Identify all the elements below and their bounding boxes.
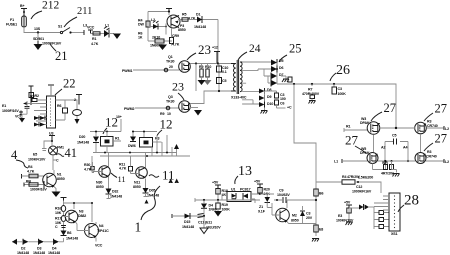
node C — [53, 155, 59, 165]
wire PWM2 to Q3 gate — [135, 107, 179, 109]
svg-text:C3: C3 — [306, 212, 310, 216]
resistor CR9 4.7K — [170, 28, 180, 47]
resistor R15 (28 area) — [347, 208, 351, 214]
resistor R17 10K — [55, 212, 66, 227]
svg-text:C3: C3 — [338, 87, 342, 91]
terminal tick right of 22 — [74, 95, 82, 105]
svg-text:R30: R30 — [84, 163, 90, 167]
junction dots rail — [293, 83, 295, 85]
svg-text:13: 13 — [238, 164, 252, 179]
capacitor C1 1000KF/16V — [33, 33, 62, 46]
rectifier D9 — [259, 91, 271, 105]
svg-text:R5: R5 — [182, 13, 186, 17]
svg-text:D6: D6 — [279, 66, 283, 70]
svg-text:8050: 8050 — [57, 177, 65, 181]
zener pair (28 area) — [349, 204, 374, 210]
supply +5V (13 right) — [254, 180, 263, 188]
diode chain D2 — [12, 239, 29, 255]
junction dots bus — [104, 152, 168, 158]
wire Q6 drain out L2 — [427, 126, 450, 131]
svg-text:22: 22 — [63, 77, 76, 91]
connector XS1 (28) — [389, 193, 400, 236]
secondary tap wires — [242, 62, 274, 104]
ground (C11) — [200, 228, 208, 234]
svg-text:1000F/16V: 1000F/16V — [2, 109, 19, 113]
transistor QN30 8050 (11 left) — [93, 153, 110, 190]
callout 26 — [330, 63, 350, 81]
diode D3 — [29, 239, 46, 255]
transistor Q13 D882 — [64, 210, 87, 227]
sense resistors WR 4R7 — [373, 160, 397, 176]
svg-text:U3: U3 — [49, 132, 53, 136]
svg-text:1000F/16V: 1000F/16V — [30, 188, 47, 192]
wire feedback drop — [294, 84, 316, 236]
svg-text:D9: D9 — [267, 95, 271, 99]
svg-text:41: 41 — [65, 146, 78, 160]
callout 12 (right) — [157, 117, 173, 137]
label PWM2 — [124, 107, 134, 111]
diode pair D (pin 7) — [34, 122, 45, 127]
callout 4 — [11, 148, 28, 168]
svg-text:R3: R3 — [30, 95, 34, 99]
svg-text:VCC: VCC — [87, 26, 95, 30]
ground arrow (Q3 source) — [190, 108, 202, 116]
svg-text:4.7K: 4.7K — [119, 167, 127, 171]
svg-text:8050: 8050 — [291, 219, 299, 223]
connector left pins — [374, 196, 389, 210]
chassis ground (28 area) — [346, 222, 353, 225]
svg-text:A2: A2 — [381, 146, 385, 150]
resistor R13 100K — [332, 84, 346, 96]
svg-text:11: 11 — [162, 168, 175, 183]
callout 1 — [135, 186, 161, 235]
diode D30 — [108, 193, 114, 197]
svg-text:100: 100 — [280, 97, 286, 101]
transistor QN11 8050 (11 right) — [133, 153, 147, 190]
label PWM1 — [122, 69, 132, 73]
junction dots drain rail — [195, 62, 197, 64]
resistor R9b 10 — [160, 112, 171, 116]
svg-text:Q3: Q3 — [168, 95, 173, 99]
svg-text:R1: R1 — [346, 125, 350, 129]
rail 10+ label — [116, 115, 122, 132]
svg-text:D5: D5 — [279, 59, 283, 63]
capacitor C5 on +12 drop — [217, 78, 227, 84]
gate bead Q1 — [164, 65, 173, 72]
rectifier D6 — [258, 63, 283, 77]
capacitor C15 1000KF/16V — [352, 185, 372, 194]
svg-text:B+: B+ — [20, 4, 25, 8]
callout 12 (left) — [103, 115, 118, 135]
bus wires (11/12 block) — [93, 132, 190, 157]
ground (Q10) — [52, 192, 61, 198]
IC U1 left pins — [34, 100, 47, 125]
svg-text:FUSE1: FUSE1 — [6, 23, 17, 27]
ground (21 block) — [34, 41, 43, 50]
wire Q5-Q6 drain link — [380, 127, 415, 129]
capacitor E5 100KF/10V — [28, 146, 47, 162]
MOSFET Q3 TK30 — [166, 95, 190, 112]
svg-text:27: 27 — [435, 102, 448, 116]
svg-text:D882: D882 — [78, 214, 86, 218]
node +C (25) — [277, 106, 292, 110]
svg-text:E5: E5 — [33, 153, 37, 157]
svg-text:0.1: 0.1 — [222, 70, 227, 74]
svg-text:23: 23 — [172, 80, 184, 94]
TVS 1.5KE200 — [357, 176, 373, 184]
svg-text:+C: +C — [287, 106, 292, 110]
wire PWM1 to Q1 gate — [133, 69, 179, 71]
diode D1 1N4148 — [194, 13, 218, 30]
diode D15 1N4148 — [172, 213, 204, 229]
callout 27 (Q5) — [371, 101, 396, 121]
svg-text:C5: C5 — [222, 79, 226, 83]
svg-text:DW6: DW6 — [128, 144, 136, 148]
svg-text:R1: R1 — [115, 137, 119, 141]
svg-text:PC817: PC817 — [240, 188, 251, 192]
wire L1 to Q7 gate — [342, 160, 367, 162]
callout 22 — [55, 77, 76, 96]
svg-text:F1: F1 — [10, 18, 14, 22]
resistor R19 100K — [216, 200, 230, 212]
wire S1 to L3 terminal — [72, 32, 85, 34]
svg-text:E1: E1 — [2, 104, 6, 108]
svg-text:1N4148: 1N4148 — [48, 251, 60, 255]
zener Z1 9.1V — [258, 194, 274, 214]
resistor R22 (feedback leg lower) — [314, 225, 323, 232]
svg-text:211: 211 — [77, 6, 92, 17]
wire top bus (D882) — [64, 203, 93, 222]
junction dot bottom rail — [218, 90, 220, 92]
resistor R6 1K — [138, 32, 143, 40]
resistor R7 (bottom, 2K10) — [148, 36, 172, 48]
svg-text:B6: B6 — [319, 192, 323, 196]
svg-text:11: 11 — [118, 174, 126, 184]
diode D20 1N4148 — [77, 132, 99, 147]
resistor R24 4.7K (base Q10) — [22, 165, 45, 179]
IC U1 top pin wire — [50, 85, 52, 96]
chassis ground (26) — [309, 99, 316, 104]
transistor Q2 8550 (PNP) — [167, 15, 186, 32]
rectifier D5 — [271, 59, 283, 66]
svg-text:9.1F: 9.1F — [258, 210, 266, 214]
wire D1 down to drain rail — [217, 20, 219, 64]
svg-text:20V: 20V — [306, 216, 313, 220]
gate bead Q3 — [166, 106, 170, 110]
svg-text:27: 27 — [345, 133, 359, 148]
supply +12 — [212, 46, 220, 64]
ground (snubber) — [198, 80, 212, 85]
terminal square (QN30 base) — [91, 162, 94, 172]
svg-text:CR740: CR740 — [427, 124, 438, 128]
diode D4b — [44, 238, 64, 255]
svg-text:X133-40C: X133-40C — [231, 96, 247, 100]
ground (aux) — [158, 45, 167, 51]
svg-text:C5: C5 — [392, 134, 396, 138]
callout 23 (lower) — [172, 80, 184, 101]
svg-text:100K: 100K — [222, 208, 231, 212]
optocoupler U2 (12 left) — [90, 131, 121, 147]
svg-text:10K: 10K — [55, 211, 62, 215]
capacitor C12 (25) — [265, 91, 286, 101]
svg-text:N3: N3 — [79, 210, 83, 214]
wire Q5 source to Q7 — [373, 135, 375, 153]
svg-text:R10: R10 — [205, 65, 211, 69]
diode D32 1N4148 — [106, 189, 123, 199]
MOSFET Q5 — [360, 117, 380, 134]
svg-text:10+: 10+ — [116, 115, 122, 119]
svg-text:20: 20 — [169, 65, 173, 69]
optocoupler U3 (12 right) — [128, 131, 162, 149]
resonator Y1 — [65, 100, 82, 124]
svg-text:R4: R4 — [342, 175, 346, 179]
transistor Q14 TIP41C — [77, 222, 109, 242]
transformer T1 primary winding — [231, 64, 236, 92]
svg-text:4.7K: 4.7K — [91, 42, 99, 46]
svg-text:L2: L2 — [445, 127, 449, 131]
svg-text:C6: C6 — [280, 102, 284, 106]
callout 212 — [31, 0, 60, 19]
svg-text:212: 212 — [42, 0, 60, 12]
chassis ground (25 lower) — [261, 108, 268, 114]
capacitor E6 1000F/16V — [30, 181, 47, 192]
svg-text:1N4148: 1N4148 — [147, 194, 159, 198]
transistor Q9 8050 — [272, 200, 299, 224]
svg-text:1N4148: 1N4148 — [17, 251, 29, 255]
resistor R3 (pin1) — [30, 95, 37, 102]
node 13S — [34, 27, 41, 34]
chassis ground (feedback leg) — [312, 239, 319, 242]
MOSFET Q8 IRF740 — [415, 150, 437, 164]
svg-text:PWM1: PWM1 — [122, 69, 132, 73]
svg-text:4R7/2W: 4R7/2W — [381, 172, 394, 176]
callout 27 (Q7) — [345, 133, 366, 154]
chassis ground (bridge) — [393, 174, 400, 177]
callout 25 — [279, 42, 302, 63]
svg-text:VCC: VCC — [95, 244, 103, 248]
svg-text:27: 27 — [435, 132, 448, 146]
svg-text:24: 24 — [249, 43, 261, 55]
capacitor C14 bridge mid — [381, 134, 409, 163]
svg-text:28: 28 — [404, 193, 419, 209]
svg-text:1: 1 — [135, 220, 142, 235]
svg-text:R3: R3 — [427, 150, 431, 154]
callout 23 (upper) — [187, 42, 211, 60]
svg-text:R2: R2 — [35, 94, 39, 98]
resistor R11a (25) — [288, 77, 292, 82]
svg-text:R16: R16 — [55, 207, 61, 211]
callout 27 (Q6) — [424, 102, 447, 122]
svg-text:13S: 13S — [34, 27, 41, 31]
capacitor bank C16 C17 C18 — [374, 207, 389, 229]
svg-text:1N4148: 1N4148 — [66, 237, 78, 241]
junction dot bridge top — [395, 127, 397, 129]
svg-text:TK30: TK30 — [166, 100, 174, 104]
transformer T1 secondary winding — [240, 62, 244, 92]
svg-text:XS1: XS1 — [391, 232, 398, 236]
capacitor C9 104/63V — [274, 189, 316, 204]
wire aux top rail — [148, 12, 169, 42]
wire 13 output row — [195, 198, 260, 202]
capacitor E3 100KF/10V — [336, 214, 354, 223]
diode D05 1N4148 — [143, 179, 160, 204]
svg-text:26: 26 — [336, 63, 350, 78]
svg-text:23: 23 — [198, 42, 211, 57]
callout 211 — [64, 6, 92, 27]
capacitor (Q13 base) — [55, 225, 66, 229]
svg-text:B6: B6 — [67, 231, 71, 235]
svg-text:S1: S1 — [58, 25, 62, 29]
svg-text:+5V: +5V — [254, 180, 261, 184]
chassis ground (25 upper) — [281, 76, 289, 82]
arrow node (pin2) — [23, 102, 36, 106]
LED L1 — [104, 24, 110, 38]
svg-text:L2: L2 — [445, 160, 449, 164]
svg-text:DW: DW — [138, 23, 144, 27]
wire fuse to bus — [24, 27, 60, 33]
IC U1 right pin resonator loop — [56, 100, 68, 120]
svg-text:CR740: CR740 — [426, 155, 437, 159]
node U3 tick — [49, 132, 55, 142]
supply +5V (28 area) — [344, 201, 352, 209]
LED L2 — [148, 18, 167, 35]
svg-text:D15: D15 — [184, 220, 190, 224]
svg-text:R9: R9 — [160, 112, 164, 116]
IC U1 (block 22 controller) — [47, 96, 56, 128]
capacitor C10 on +12 drop — [217, 64, 229, 92]
svg-text:+5V: +5V — [212, 181, 219, 185]
ground stub (bottom left) — [12, 239, 17, 245]
wire snubber leg to bottom rail — [195, 64, 197, 92]
resistor R4 — [138, 19, 150, 28]
svg-text:12: 12 — [160, 117, 173, 132]
supply VCC (led branch) — [87, 26, 95, 34]
callout 11 (small) — [111, 173, 126, 184]
resistor R1 4.7K — [91, 32, 105, 46]
svg-text:D2: D2 — [21, 247, 25, 251]
svg-text:C9: C9 — [279, 189, 283, 193]
resistor R2 (left of 22) — [29, 86, 39, 105]
resistor R18 1K — [216, 188, 228, 200]
node arrow A — [174, 144, 179, 156]
svg-text:R17: R17 — [55, 217, 61, 221]
snubber R9 R10 — [199, 64, 211, 81]
svg-text:27: 27 — [384, 101, 397, 115]
svg-text:D4: D4 — [52, 247, 56, 251]
ground arrow (R19) — [214, 209, 222, 217]
optocoupler U4 PC817 (13) — [222, 188, 260, 204]
svg-text:M2: M2 — [292, 214, 297, 218]
resistor R16 10K — [55, 200, 66, 215]
callout 27 (Q8) — [424, 132, 447, 152]
callout 24 — [238, 43, 261, 60]
node arrows (11 block) — [169, 179, 173, 184]
callout 41 — [56, 146, 77, 160]
svg-text:C12: C12 — [356, 185, 362, 189]
resistor R30 4.7K — [84, 156, 94, 173]
label VCC (Q14) — [95, 244, 103, 248]
callout 13 — [235, 164, 252, 184]
callout 21 — [50, 44, 68, 63]
MOSFET Q1 TK30 — [166, 55, 190, 72]
svg-text:U1: U1 — [231, 188, 235, 192]
svg-text:D10: D10 — [267, 102, 273, 106]
svg-text:C11: C11 — [198, 221, 204, 225]
svg-text:PWM2: PWM2 — [124, 107, 134, 111]
junction dot (feedback/row) — [315, 199, 317, 201]
svg-text:N4: N4 — [99, 224, 103, 228]
wire output rail — [277, 84, 396, 128]
svg-text:R6: R6 — [57, 104, 61, 108]
switch S1 — [58, 25, 72, 34]
wire lamp top — [44, 141, 52, 146]
transformer T1 core — [237, 60, 238, 94]
MOSFET Q7 — [360, 147, 378, 164]
rectifier D7 — [264, 68, 283, 84]
svg-text:E8: E8 — [319, 228, 323, 232]
wire Q6 source to Q8 — [420, 134, 422, 153]
wire Q7-Q8 source link — [378, 160, 415, 162]
supply +5V (13 left) — [212, 181, 221, 189]
svg-text:8050: 8050 — [133, 185, 141, 189]
bus verticals — [152, 135, 172, 156]
svg-text:4.7K: 4.7K — [84, 168, 92, 172]
resistor R14 47R/2W — [316, 175, 381, 193]
diode pair D (pin 5) — [34, 116, 45, 121]
svg-text:+12: +12 — [212, 46, 218, 50]
resistor R25 100 — [24, 180, 44, 187]
transistor QN30b 8050 (right of 4) — [95, 183, 101, 187]
svg-text:1000KF/16V: 1000KF/16V — [42, 42, 62, 46]
svg-text:104/63V: 104/63V — [277, 193, 290, 197]
MOSFET Q6 IRF740 — [415, 120, 438, 134]
svg-text:25: 25 — [289, 42, 302, 56]
svg-text:E3: E3 — [338, 214, 342, 218]
callout 28 — [398, 193, 419, 213]
svg-text:R3: R3 — [427, 120, 431, 124]
svg-text:4.7K: 4.7K — [27, 170, 35, 174]
capacitor C13 (25) — [275, 98, 285, 108]
node L3 — [83, 24, 87, 36]
diode D6b 1N4148 — [61, 226, 79, 241]
wire Q5 gate feed — [344, 125, 367, 133]
svg-text:A4: A4 — [403, 146, 407, 150]
svg-text:100KF/10V: 100KF/10V — [28, 158, 46, 162]
wire 12-left bottom — [96, 146, 107, 153]
svg-text:2: 2 — [74, 98, 76, 102]
svg-text:1N4148: 1N4148 — [194, 25, 206, 29]
aux supply: top rail tick — [166, 9, 172, 12]
junction dots (13 row) — [203, 199, 205, 201]
svg-text:R4: R4 — [28, 165, 32, 169]
svg-text:2K10: 2K10 — [152, 36, 160, 40]
svg-text:N1: N1 — [57, 173, 61, 177]
resistor R5 4.7K — [178, 13, 196, 22]
resistor R21 (feedback leg upper) — [314, 189, 324, 196]
wire Q8 out right — [426, 159, 449, 164]
label X133-40C — [231, 96, 247, 100]
svg-text:D3: D3 — [37, 247, 41, 251]
svg-text:1N4148: 1N4148 — [182, 225, 194, 229]
diode D4 1N60 — [201, 200, 217, 216]
lamp FM1 (41) — [49, 146, 64, 156]
svg-text:1N4148: 1N4148 — [33, 251, 45, 255]
capacitor C11 103J/100V — [198, 214, 222, 230]
ground (L1) — [109, 34, 121, 40]
svg-text:D20: D20 — [79, 135, 85, 139]
capacitor E1 1000F/16V — [2, 104, 23, 119]
node B+ — [20, 4, 27, 16]
